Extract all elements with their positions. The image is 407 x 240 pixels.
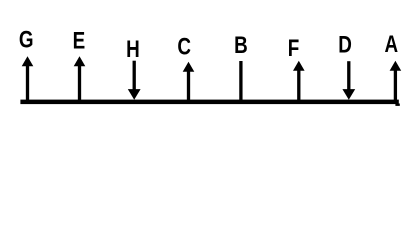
arrow G (up) (22, 56, 34, 102)
arrow C (up) (183, 62, 195, 102)
svg-text:G: G (19, 25, 34, 53)
svg-text:F: F (288, 33, 300, 61)
arrow F (up) (293, 61, 305, 102)
arrow D (down) (342, 61, 355, 100)
baseline right-end foot (395, 104, 399, 106)
baseline (20, 100, 398, 105)
svg-text:D: D (338, 30, 352, 58)
arrow A (up) (390, 61, 402, 102)
svg-text:H: H (126, 35, 140, 63)
arrow H (down) (128, 61, 141, 100)
svg-text:B: B (234, 30, 248, 58)
arrow E (up) (74, 56, 86, 102)
svg-text:C: C (177, 32, 191, 60)
svg-text:A: A (384, 30, 398, 58)
svg-text:E: E (73, 26, 86, 54)
line B (no arrowhead) (239, 61, 242, 102)
